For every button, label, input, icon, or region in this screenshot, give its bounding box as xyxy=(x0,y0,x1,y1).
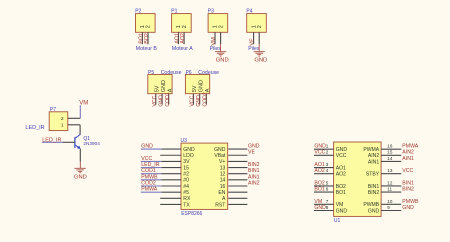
svg-text:P3: P3 xyxy=(208,9,214,15)
U1 right net labels xyxy=(402,144,419,211)
svg-text:BO2: BO2 xyxy=(314,180,324,186)
U3 left net labels xyxy=(141,144,159,193)
U3 left net wires xyxy=(141,149,162,192)
wire to Q1 collector xyxy=(79,125,81,135)
transistor Q1 xyxy=(75,135,100,150)
pin 2 wire (P5) xyxy=(161,94,163,105)
pin 1 wire (P2) xyxy=(141,32,143,44)
ground GND (Q1) xyxy=(74,168,87,180)
pin 1 wire (P5) xyxy=(155,94,157,105)
svg-text:P2: P2 xyxy=(135,9,141,15)
svg-text:GND: GND xyxy=(336,147,348,153)
svg-text:GND: GND xyxy=(314,144,326,150)
svg-text:AIN1: AIN1 xyxy=(248,174,260,180)
pin 1 wire (P1) xyxy=(178,32,180,44)
svg-text:Moteur A: Moteur A xyxy=(172,46,193,52)
svg-text:P6: P6 xyxy=(186,70,192,76)
svg-text:BO2: BO2 xyxy=(144,33,150,43)
U3 right net labels xyxy=(248,144,260,187)
U1 right pin numbers xyxy=(387,144,393,210)
U1 left pin wires xyxy=(314,149,334,210)
svg-text:5V: 5V xyxy=(192,85,198,92)
svg-text:VM: VM xyxy=(314,199,322,205)
svg-text:7: 7 xyxy=(326,199,329,204)
svg-text:RST: RST xyxy=(215,202,225,208)
U3 right pin wires xyxy=(228,149,247,204)
svg-text:BIN2: BIN2 xyxy=(368,190,379,196)
connector P2 xyxy=(135,9,155,33)
svg-text:A: A xyxy=(168,88,174,92)
svg-text:BO1: BO1 xyxy=(314,187,324,193)
svg-text:PMWA: PMWA xyxy=(141,187,157,193)
svg-text:Moteur B: Moteur B xyxy=(136,46,158,52)
pin 2 wire (P1) xyxy=(183,32,185,44)
svg-text:GND: GND xyxy=(161,80,167,92)
connector P3 xyxy=(208,9,228,33)
svg-text:#0: #0 xyxy=(183,178,189,184)
svg-text:AIN2: AIN2 xyxy=(368,153,379,159)
svg-text:AIN1: AIN1 xyxy=(368,159,379,165)
pin 2 wire (P4) xyxy=(258,32,260,44)
svg-text:VE: VE xyxy=(248,150,255,156)
svg-text:11: 11 xyxy=(387,187,392,192)
svg-text:2: 2 xyxy=(146,25,152,28)
svg-text:5: 5 xyxy=(326,180,329,185)
svg-text:GND: GND xyxy=(368,208,380,214)
svg-text:PWMB: PWMB xyxy=(363,202,379,208)
svg-text:P5: P5 xyxy=(148,70,154,76)
svg-text:U3: U3 xyxy=(181,138,188,144)
svg-text:16: 16 xyxy=(387,144,393,149)
svg-text:2N3904: 2N3904 xyxy=(83,141,100,146)
svg-text:15: 15 xyxy=(183,165,189,171)
svg-text:GND: GND xyxy=(254,58,267,64)
svg-text:2: 2 xyxy=(218,25,224,28)
emitter wire (Q1) xyxy=(79,149,81,162)
svg-text:A: A xyxy=(205,88,211,92)
svg-text:15: 15 xyxy=(387,150,393,155)
svg-text:PMWB: PMWB xyxy=(402,199,419,205)
U3 left pin wires xyxy=(160,149,181,204)
svg-text:10: 10 xyxy=(387,199,393,204)
svg-text:GND: GND xyxy=(402,205,414,211)
svg-text:PWMA: PWMA xyxy=(363,147,379,153)
svg-text:13: 13 xyxy=(387,168,393,173)
svg-text:LED_IR: LED_IR xyxy=(42,137,61,143)
svg-text:VCC: VCC xyxy=(336,153,347,159)
svg-text:GND: GND xyxy=(141,144,153,150)
svg-text:2: 2 xyxy=(182,25,188,28)
connector P1 xyxy=(171,9,191,33)
svg-text:AO1: AO1 xyxy=(336,165,346,171)
svg-text:1: 1 xyxy=(326,144,329,149)
svg-text:14: 14 xyxy=(220,178,226,184)
svg-text:P7: P7 xyxy=(50,107,56,113)
svg-text:12: 12 xyxy=(387,180,393,185)
svg-text:9: 9 xyxy=(387,205,390,210)
pin 3 wire (P5) xyxy=(168,94,170,105)
svg-text:LED_IR: LED_IR xyxy=(25,125,44,131)
svg-text:GND: GND xyxy=(196,95,202,107)
connector P4 xyxy=(246,9,266,33)
svg-text:TX: TX xyxy=(183,202,190,208)
pin 2 wire (P2) xyxy=(147,32,149,44)
connector P5 xyxy=(148,70,182,94)
IC U3 ESP8266 xyxy=(181,138,228,217)
svg-text:BIN1: BIN1 xyxy=(368,184,379,190)
svg-text:P1: P1 xyxy=(171,9,177,15)
svg-text:COD2: COD2 xyxy=(141,180,156,186)
svg-text:3V: 3V xyxy=(183,159,190,165)
svg-text:VCC: VCC xyxy=(402,168,413,174)
pin 1 wire (P7) xyxy=(68,124,80,126)
svg-text:2: 2 xyxy=(326,150,329,155)
svg-text:COD1: COD1 xyxy=(141,168,156,174)
svg-text:BO2: BO2 xyxy=(336,184,346,190)
svg-text:STBY: STBY xyxy=(366,172,380,178)
svg-text:V+: V+ xyxy=(219,159,225,165)
svg-text:GND: GND xyxy=(183,147,195,153)
ground GND (P3) xyxy=(215,44,229,63)
svg-text:GND: GND xyxy=(314,205,326,211)
svg-text:#2: #2 xyxy=(183,172,189,178)
U1 right pin names xyxy=(363,147,379,214)
svg-text:BIN1: BIN1 xyxy=(402,180,414,186)
svg-text:RX: RX xyxy=(183,196,191,202)
base wire (Q1) xyxy=(42,141,63,143)
svg-text:P4: P4 xyxy=(246,9,252,15)
svg-text:#4: #4 xyxy=(183,184,189,190)
svg-text:5V: 5V xyxy=(155,85,161,92)
U1 left net labels xyxy=(314,144,326,211)
wire to VM xyxy=(79,105,81,118)
svg-text:6: 6 xyxy=(326,187,329,192)
svg-text:3: 3 xyxy=(326,162,329,167)
svg-text:AIN2: AIN2 xyxy=(248,180,260,186)
U1 left pin numbers xyxy=(326,144,329,210)
svg-text:4: 4 xyxy=(326,168,329,173)
svg-text:16: 16 xyxy=(220,184,226,190)
svg-text:8: 8 xyxy=(326,205,329,210)
pin 1 wire (P6) xyxy=(192,94,194,105)
svg-text:Codeuse: Codeuse xyxy=(161,70,182,76)
svg-text:AIN1: AIN1 xyxy=(402,156,414,162)
svg-text:VM: VM xyxy=(79,101,88,107)
IC U1 motor driver xyxy=(334,142,382,224)
U1 left pin names xyxy=(336,147,348,214)
U1 right pin wires xyxy=(381,149,401,210)
svg-text:BIN2: BIN2 xyxy=(248,162,260,168)
svg-text:AO2: AO2 xyxy=(180,33,186,43)
svg-text:LED_IR: LED_IR xyxy=(141,162,159,168)
svg-text:VCC: VCC xyxy=(314,150,325,156)
svg-text:PMWA: PMWA xyxy=(402,144,418,150)
svg-text:VM: VM xyxy=(211,37,217,46)
svg-text:VCC: VCC xyxy=(152,95,158,106)
pin 2 wire (P7) xyxy=(68,117,81,119)
U3 right pin names xyxy=(214,147,226,208)
U3 left pin names xyxy=(183,147,195,208)
svg-text:VCC: VCC xyxy=(141,156,152,162)
svg-text:PMWB: PMWB xyxy=(141,174,158,180)
svg-text:VCC: VCC xyxy=(190,95,196,106)
svg-text:AIN2: AIN2 xyxy=(402,150,414,156)
svg-text:#5: #5 xyxy=(183,190,189,196)
svg-text:VE: VE xyxy=(250,38,256,46)
svg-text:A: A xyxy=(222,196,226,202)
svg-text:AO2: AO2 xyxy=(336,172,346,178)
svg-text:14: 14 xyxy=(387,156,393,161)
svg-text:13: 13 xyxy=(220,165,226,171)
svg-text:GND: GND xyxy=(199,80,205,92)
svg-text:GND: GND xyxy=(214,147,226,153)
pin 2 wire (P6) xyxy=(199,94,201,105)
svg-text:1: 1 xyxy=(61,123,64,128)
svg-text:GND: GND xyxy=(336,208,348,214)
connector P6 xyxy=(185,70,219,94)
svg-text:ESP8266: ESP8266 xyxy=(181,211,202,217)
svg-text:EN: EN xyxy=(218,190,225,196)
svg-text:COD2: COD2 xyxy=(203,92,209,107)
svg-text:GND: GND xyxy=(248,144,260,150)
svg-text:GND: GND xyxy=(74,174,87,180)
svg-text:GND: GND xyxy=(158,95,164,107)
svg-text:AO1: AO1 xyxy=(314,162,324,168)
svg-text:U1: U1 xyxy=(334,218,341,224)
svg-text:BO1: BO1 xyxy=(336,190,346,196)
svg-text:12: 12 xyxy=(220,172,226,178)
svg-text:Codeuse: Codeuse xyxy=(198,70,219,76)
svg-text:2: 2 xyxy=(61,116,64,121)
ground GND (P4) xyxy=(254,44,268,63)
svg-text:2: 2 xyxy=(257,25,263,28)
svg-text:VBat: VBat xyxy=(214,153,226,159)
connector P7 xyxy=(49,107,68,131)
pin 2 wire (P3) xyxy=(220,32,222,44)
svg-text:COD1: COD1 xyxy=(165,92,171,107)
svg-text:LDO: LDO xyxy=(183,153,194,159)
svg-text:VM: VM xyxy=(336,202,344,208)
svg-text:AO2: AO2 xyxy=(314,168,324,174)
pin 1 wire (P4) xyxy=(253,32,255,44)
svg-text:BIN1: BIN1 xyxy=(248,168,260,174)
pin 1 wire (P3) xyxy=(214,32,216,44)
svg-text:GND: GND xyxy=(216,58,229,64)
pin 3 wire (P6) xyxy=(205,94,207,105)
svg-text:BIN2: BIN2 xyxy=(402,187,414,193)
